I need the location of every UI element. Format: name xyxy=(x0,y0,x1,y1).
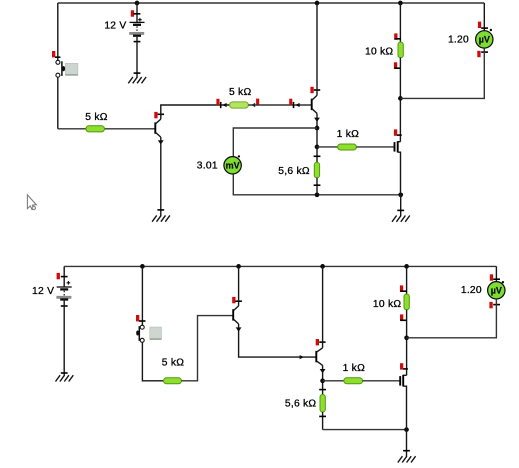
svg-text:5,6 kΩ: 5,6 kΩ xyxy=(285,399,317,410)
node: Q5 collector on bus xyxy=(320,264,325,269)
node: battery positive on bus xyxy=(135,1,140,6)
svg-text:10 kΩ: 10 kΩ xyxy=(365,47,393,58)
wire: battery V2 to ground xyxy=(63,301,65,376)
push switch S1 xyxy=(52,51,78,77)
resistor R7 1k xyxy=(343,363,365,384)
node: uV meter return (bottom) xyxy=(404,335,409,340)
wire: horizontal run to resistor R1 xyxy=(58,128,86,130)
tick: Q2 base pin xyxy=(293,102,295,108)
mosfet Q3 n-channel xyxy=(394,129,402,194)
svg-text:1.20: 1.20 xyxy=(448,34,469,45)
wire: 10k branch from bus xyxy=(406,266,408,294)
svg-text:µV: µV xyxy=(491,286,502,296)
wire: top supply bus xyxy=(58,2,485,4)
wire: R1 to Q1 base xyxy=(105,128,155,130)
svg-text:5 kΩ: 5 kΩ xyxy=(229,87,251,98)
resistor R9 10k vertical xyxy=(373,285,409,320)
current arrow on Q1 emitter xyxy=(158,140,164,144)
wire: bus corner to uV meter (bottom) xyxy=(495,266,497,282)
wire: 10k branch from bus xyxy=(399,3,401,42)
wire: node to 1k resistor R7 xyxy=(323,380,344,382)
wire: battery to ground xyxy=(136,37,138,78)
ground: battery V2 xyxy=(56,373,74,382)
wire: rail node down to ground xyxy=(406,430,408,457)
resistor R1 5k xyxy=(85,112,107,132)
ground: mosfet source xyxy=(392,210,410,221)
wire: node to 1k resistor xyxy=(317,146,338,148)
node: 1k take-off xyxy=(315,145,320,150)
node: Q2 emitter / meter branch xyxy=(315,126,320,131)
wire: mV meter down to bottom rail xyxy=(233,174,400,195)
svg-text:µV: µV xyxy=(479,35,490,45)
ground: Q1 emitter xyxy=(152,210,170,222)
node: Q4 collector on bus xyxy=(236,264,241,269)
resistor R3 1k xyxy=(337,129,359,150)
node: Q2 collector on bus xyxy=(315,1,320,6)
svg-text:10 kΩ: 10 kΩ xyxy=(373,299,401,310)
node: Q5 emitter / 1k take-off xyxy=(320,378,325,383)
wire: bottom rail xyxy=(323,429,407,431)
node: 10k resistor top on bus xyxy=(398,1,403,6)
ground: mosfet Q6 source xyxy=(398,451,416,463)
battery V1 12V xyxy=(104,3,144,42)
wire: bus corner to uV meter xyxy=(483,3,485,31)
mouse cursor xyxy=(27,195,36,210)
resistor R4 5,6k vertical xyxy=(278,147,320,195)
current arrow on Q5 base wire xyxy=(300,355,304,359)
voltmeter M1 (mV) xyxy=(197,155,242,174)
voltmeter M3 (uV) xyxy=(461,274,505,308)
wire: bottom supply bus xyxy=(64,265,496,267)
wire: Q2 collector up to bus xyxy=(316,3,318,95)
resistor R2 5k (mid rail) xyxy=(216,87,259,108)
node: mosfet source on rail xyxy=(404,427,409,432)
wire: Q5 emitter down xyxy=(322,365,324,394)
svg-text:mV: mV xyxy=(226,161,240,171)
mosfet Q6 n-channel xyxy=(400,363,408,429)
node: uV meter return xyxy=(398,96,403,101)
svg-text:1.20: 1.20 xyxy=(461,285,482,296)
wire: R7 to mosfet gate xyxy=(363,380,401,382)
wire: uV meter down and left to 10k node xyxy=(400,48,484,98)
wire: Q1 collector up and right along mid rail xyxy=(161,105,230,119)
node: 5,6k bottom on rail xyxy=(315,192,320,197)
svg-text:12 V: 12 V xyxy=(32,286,54,297)
transistor Q2 npn xyxy=(310,87,320,114)
current arrow on Q2 base wire xyxy=(295,103,299,107)
node: mosfet source on rail xyxy=(398,192,403,197)
wire: switch to lower-left run xyxy=(57,77,59,129)
wire: 10k down to mosfet drain xyxy=(406,310,408,376)
transistor Q1 npn xyxy=(154,112,164,137)
transistor Q5 npn xyxy=(316,339,326,365)
wire: bus down to switch S2 xyxy=(141,266,143,325)
svg-text:5,6 kΩ: 5,6 kΩ xyxy=(278,166,310,177)
wire: Q2 emitter down xyxy=(316,113,318,146)
wire: to mV meter (left then down) xyxy=(233,128,317,157)
wire: R6 up to Q4 base xyxy=(182,316,233,381)
wire: Q5 collector up to bus xyxy=(322,266,324,347)
wire: 10k down to mosfet drain xyxy=(399,58,401,142)
current arrow on Q5 emitter xyxy=(320,369,326,373)
svg-text:5 kΩ: 5 kΩ xyxy=(85,112,107,123)
wire: uV meter down and left to 10k node xyxy=(407,299,497,338)
node: 10k branch on bus xyxy=(404,264,409,269)
battery V2 12V xyxy=(32,273,72,306)
wire: Q4 collector up to bus xyxy=(238,266,240,306)
wire: Q1 emitter down to ground xyxy=(160,137,162,216)
wire: switch S2 down and right to R6 xyxy=(142,342,163,381)
svg-text:1 kΩ: 1 kΩ xyxy=(343,363,365,374)
wire: Q4 emitter down and right to Q5 base xyxy=(239,324,316,357)
pin mark: Q2 base xyxy=(289,99,292,105)
svg-text:12 V: 12 V xyxy=(104,21,126,32)
resistor R6 5k xyxy=(162,358,184,384)
current arrow on Q2 emitter xyxy=(314,118,320,122)
push switch S2 xyxy=(136,315,161,342)
ground: battery V1 xyxy=(128,73,146,83)
current arrow on Q4 emitter xyxy=(236,327,242,331)
svg-text:3.01: 3.01 xyxy=(197,161,218,172)
wire: bus to battery xyxy=(63,266,65,287)
node: switch branch on bus xyxy=(140,264,145,269)
transistor Q4 npn xyxy=(232,297,242,324)
svg-text:5 kΩ: 5 kΩ xyxy=(162,358,184,369)
resistor R5 10k vertical xyxy=(365,33,403,68)
wire: left branch from bus down to switch xyxy=(57,3,59,60)
wire: rail node down to ground xyxy=(400,195,402,216)
wire: R3 to mosfet gate xyxy=(356,146,394,148)
wire: R2 to Q2 base xyxy=(248,104,311,106)
svg-text:1 kΩ: 1 kΩ xyxy=(337,129,359,140)
voltmeter M2 (uV) xyxy=(448,22,493,58)
resistor R8 5,6k vertical xyxy=(285,390,326,430)
